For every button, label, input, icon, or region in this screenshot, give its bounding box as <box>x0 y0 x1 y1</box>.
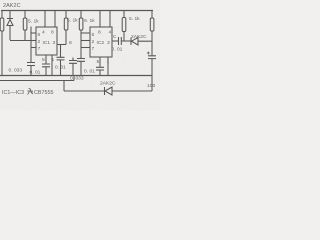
resistor R4 body <box>150 18 154 31</box>
wire IC2 pin1 bottom <box>107 57 109 76</box>
svg-text:0. 01: 0. 01 <box>112 47 123 53</box>
svg-text:2AK2C: 2AK2C <box>131 34 147 40</box>
svg-text:2: 2 <box>92 39 95 45</box>
capacitor C9 100 polarity <box>147 52 150 55</box>
wire IC2 pin8 top <box>99 11 101 28</box>
wire left edge column <box>1 11 3 77</box>
wire lower return <box>0 76 74 81</box>
diode D3 2AK2C <box>104 87 106 95</box>
svg-text:3: 3 <box>53 40 56 46</box>
wire IC1 pin2 stub <box>31 40 36 42</box>
diode D3 triangle <box>105 87 112 95</box>
capacitor C7 0.01 <box>96 67 104 75</box>
op IC1 box <box>36 27 57 55</box>
capacitor C9 100 <box>148 56 156 76</box>
resistor R5 body <box>122 18 126 32</box>
svg-text:1: 1 <box>52 57 55 63</box>
svg-text:7: 7 <box>92 46 95 52</box>
svg-text:7: 7 <box>38 46 41 52</box>
svg-text:9. 1k: 9. 1k <box>84 18 95 24</box>
wire IC2 pin7 stub <box>81 47 90 49</box>
svg-text:4: 4 <box>109 30 112 36</box>
wire IC1 pin8 top <box>54 11 56 28</box>
resistor R2 9.1k column <box>80 11 82 59</box>
diode D1 triangle <box>7 20 13 26</box>
wire IC2 pin5 bottom <box>99 57 101 67</box>
capacitor C6 0.033 <box>77 59 85 76</box>
capacitor C5 <box>69 58 77 76</box>
capacitor C8 0.01 series <box>119 37 122 45</box>
paper noise <box>0 0 160 110</box>
svg-text:6: 6 <box>92 32 95 38</box>
wire node pins 2-6-7 horizontal <box>10 40 31 42</box>
svg-text:5. 1k: 5. 1k <box>28 19 39 25</box>
wire IC1 pin bus vertical <box>30 27 32 63</box>
svg-text:5: 5 <box>97 59 100 65</box>
resistor R1 body <box>23 18 27 30</box>
svg-text:2: 2 <box>38 39 41 45</box>
svg-text:3: 3 <box>107 40 110 46</box>
wire IC1 pin4 top <box>44 11 46 28</box>
svg-text:8: 8 <box>98 30 101 36</box>
note glyph wei <box>27 88 33 94</box>
svg-text:2AK2C: 2AK2C <box>3 3 21 9</box>
wire IC1 pin5 bottom <box>45 55 47 64</box>
wire IC2 pin2 stub <box>81 40 90 42</box>
resistor R5 5.1k column <box>123 11 125 42</box>
svg-text:4: 4 <box>42 30 45 36</box>
diode D2 triangle <box>132 38 139 46</box>
svg-text:IC1: IC1 <box>43 40 51 46</box>
svg-text:0. 033: 0. 033 <box>9 68 23 74</box>
capacitor C2 0.01 <box>42 64 50 76</box>
capacitor C1 0.033 <box>27 63 35 77</box>
svg-text:5. 1k: 5. 1k <box>67 18 78 24</box>
wire GND rail <box>0 75 152 77</box>
op IC2 box <box>90 27 112 57</box>
wire IC1 pin6 stub <box>31 32 36 34</box>
wire IC2 pin4 top <box>109 11 111 28</box>
wire IC1 pin1 bottom <box>51 55 53 76</box>
svg-text:0. 033: 0. 033 <box>70 76 84 82</box>
diode D1 2AK2C <box>7 11 13 41</box>
resistor R4 5.1k column right <box>151 11 153 56</box>
resistor R3 body <box>64 18 68 30</box>
svg-text:8: 8 <box>51 30 54 36</box>
wire IC2 pin3 output <box>112 40 118 42</box>
resistor R (left edge, cut) <box>0 18 4 31</box>
svg-text:2AK2C: 2AK2C <box>100 81 116 87</box>
wire IC1 pin3 output <box>57 44 66 46</box>
svg-text:IC1—IC3: IC1—IC3 <box>2 90 24 96</box>
svg-text:0. 01: 0. 01 <box>55 65 66 71</box>
svg-text:0. 01: 0. 01 <box>30 70 41 76</box>
diode D2 2AK2C <box>131 38 152 46</box>
svg-text:100: 100 <box>147 83 155 89</box>
svg-text:0. 01: 0. 01 <box>84 69 95 75</box>
capacitor C4 0.01 <box>57 45 65 76</box>
svg-text:CB7555: CB7555 <box>34 90 53 96</box>
svg-text:8: 8 <box>69 40 72 46</box>
svg-text:5. 1k: 5. 1k <box>129 16 140 22</box>
resistor R3 5.1k column <box>65 11 67 45</box>
wire IC1 pin7 stub <box>31 47 36 49</box>
resistor R2 body <box>79 18 83 30</box>
wire C8 to D2 <box>121 40 131 42</box>
svg-text:IC2: IC2 <box>97 40 105 46</box>
wire IC2 pin6 stub <box>81 32 90 34</box>
wire VCC top rail <box>1 10 153 12</box>
svg-text:6: 6 <box>38 32 41 38</box>
wire bottom output <box>64 76 152 92</box>
resistor R1 5.1k column <box>24 11 26 41</box>
svg-text:5: 5 <box>42 57 45 63</box>
svg-text:1: 1 <box>107 59 110 65</box>
